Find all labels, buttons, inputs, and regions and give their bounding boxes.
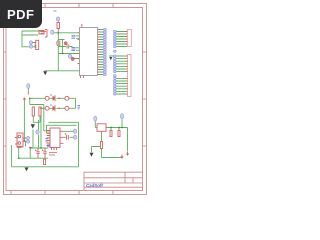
svg-text:CadSoft: CadSoft — [86, 183, 103, 188]
